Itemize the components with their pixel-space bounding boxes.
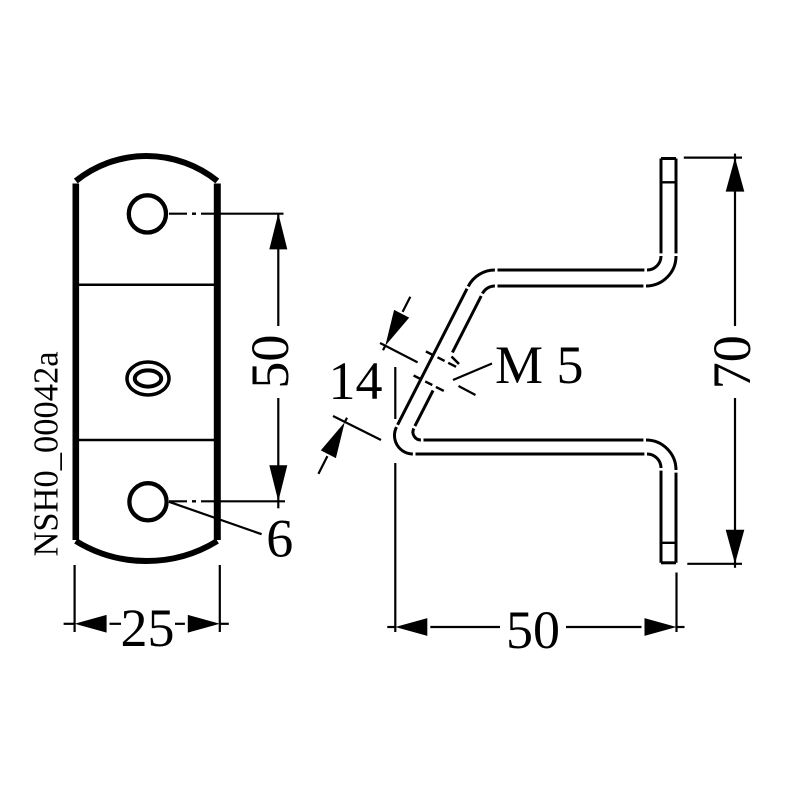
- svg-text:NSH0_00042a: NSH0_00042a: [28, 351, 66, 556]
- svg-text:6: 6: [266, 509, 293, 569]
- svg-text:14: 14: [329, 351, 383, 411]
- svg-text:25: 25: [121, 598, 175, 658]
- svg-text:70: 70: [702, 335, 762, 389]
- svg-text:50: 50: [240, 335, 300, 389]
- svg-text:50: 50: [506, 600, 560, 660]
- svg-text:M 5: M 5: [495, 335, 584, 395]
